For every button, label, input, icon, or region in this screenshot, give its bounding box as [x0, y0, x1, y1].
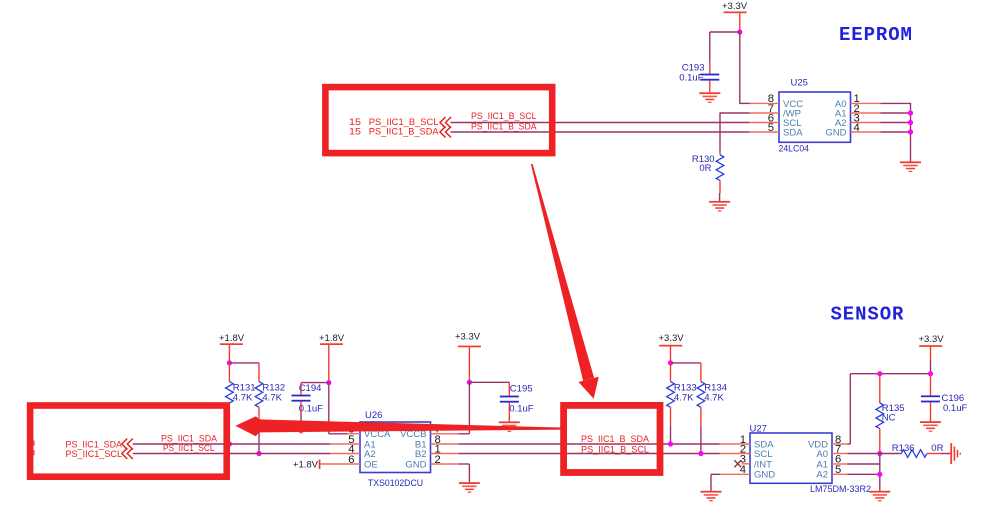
svg-text:15: 15	[349, 127, 361, 137]
wire: U27 VDD up to +3.3V rail	[848, 374, 931, 444]
svg-text:A0: A0	[816, 449, 828, 460]
node: R131 to SDA wire	[227, 441, 232, 446]
annotation box (top, PS_IIC1_B nets)	[325, 87, 552, 153]
svg-text:EEPROM: EEPROM	[839, 24, 913, 46]
svg-text:PS_IIC1_SCL: PS_IIC1_SCL	[66, 449, 123, 459]
U27 pin labels right	[808, 439, 828, 480]
resistor R134 4.7K	[697, 363, 727, 454]
svg-text:+1.8V: +1.8V	[219, 333, 245, 344]
op U27 LM75DM-33R2 chip body	[750, 423, 872, 495]
ground (C193)	[699, 92, 720, 103]
svg-text:+1.8V: +1.8V	[319, 333, 345, 344]
U25 pin numbers right	[854, 93, 860, 134]
wire: junction to R134	[671, 362, 701, 364]
U25 right pin stubs 1,2,3,4	[851, 103, 881, 132]
connector page-number marks (behind red box edge)	[32, 441, 34, 456]
wire: junction to C194	[301, 382, 329, 384]
U27 pin labels left	[754, 439, 775, 480]
wire: PS_IIC1_B_SCL net (to U25 SCL)	[451, 122, 750, 124]
svg-text:PS_IIC1_B_SCL: PS_IIC1_B_SCL	[581, 444, 649, 454]
power +3.3V (U26 VCCB / C195)	[455, 331, 481, 382]
svg-text:+3.3V: +3.3V	[722, 1, 748, 12]
U26 pin numbers right	[435, 424, 441, 466]
svg-text:0.1uF: 0.1uF	[509, 404, 533, 415]
no-connect X on U27 /INT	[734, 460, 741, 467]
ground (U27 GND)	[701, 491, 722, 502]
title SENSOR	[831, 304, 905, 326]
wire: U26 GND to ground	[459, 464, 470, 482]
U25 pin numbers left	[768, 93, 774, 134]
svg-text:R136: R136	[892, 443, 915, 454]
U27 pin numbers right	[835, 434, 841, 476]
resistor R136 0R (horizontal)	[892, 443, 951, 457]
U26 pin numbers left	[348, 424, 354, 466]
svg-text:0.1uF: 0.1uF	[299, 404, 323, 415]
annotation arrow (top box to middle box)	[531, 164, 599, 399]
svg-text:C194: C194	[299, 383, 322, 394]
svg-text:5: 5	[768, 122, 774, 134]
ground (R130)	[709, 201, 730, 212]
svg-text:4: 4	[740, 464, 746, 476]
svg-text:+3.3V: +3.3V	[919, 334, 945, 345]
svg-text:PS_IIC1_B_SDA: PS_IIC1_B_SDA	[369, 127, 439, 137]
U26 pin labels left	[364, 429, 391, 470]
svg-text:GND: GND	[825, 127, 846, 138]
node: A2 junction	[877, 472, 882, 477]
power +1.8V (R131/R132 pullups)	[219, 333, 245, 363]
power +3.3V (U27 VDD / C196)	[919, 334, 945, 374]
svg-text:NC: NC	[882, 413, 896, 424]
svg-text:6: 6	[348, 454, 354, 466]
svg-text:SDA: SDA	[783, 127, 803, 138]
svg-text:C195: C195	[510, 383, 533, 394]
off-page connector PS_IIC1_SDA	[66, 439, 133, 450]
wire: PS_IIC1_SDA net	[133, 443, 330, 445]
wire: A0..GND to ground rail	[881, 103, 911, 162]
svg-text:GND: GND	[405, 459, 426, 470]
svg-text:PS_IIC1_B_SCL: PS_IIC1_B_SCL	[369, 117, 439, 127]
node: R135 to A0 wire	[877, 451, 882, 456]
U25 pin labels right	[825, 99, 846, 139]
svg-text:PS_IIC1_B_SDA: PS_IIC1_B_SDA	[471, 121, 537, 131]
U27 pin numbers left	[740, 434, 746, 476]
svg-text:TXS0102DCU: TXS0102DCU	[368, 478, 423, 489]
svg-text:A2: A2	[364, 449, 376, 460]
svg-text:4.7K: 4.7K	[674, 393, 694, 404]
U26 right pin stubs	[431, 434, 459, 464]
wire: PS_IIC1_SCL net	[133, 453, 330, 455]
U27 left pin stubs	[720, 444, 750, 474]
resistor R131 4.7K	[226, 363, 256, 444]
svg-text:PS_IIC1_SCL: PS_IIC1_SCL	[163, 443, 215, 453]
power +1.8V (U26 VCCA / C194)	[319, 333, 345, 382]
svg-text:4.7K: 4.7K	[262, 393, 282, 404]
svg-text:A2: A2	[816, 470, 828, 481]
annotation box (bottom middle, PS_IIC1_B nets)	[564, 405, 660, 472]
node: rail junction R135	[877, 371, 882, 376]
capacitor C195 0.1uF	[500, 382, 534, 421]
svg-text:SCL: SCL	[754, 449, 772, 460]
resistor R133 4.7K	[667, 363, 697, 444]
annotation arrow (middle box to left box)	[235, 416, 565, 436]
U26 left pin stubs	[320, 434, 360, 464]
op U26 TXS0102DCU chip body	[360, 410, 431, 489]
U25 pin labels left	[783, 99, 803, 139]
title EEPROM	[839, 24, 913, 46]
power +3.3V (top, feeds U25 VCC)	[722, 1, 748, 32]
svg-text:U25: U25	[791, 78, 808, 89]
svg-text:+3.3V: +3.3V	[659, 333, 685, 344]
off-page connector PS_IIC1_SCL	[66, 448, 133, 459]
svg-text:U27: U27	[750, 423, 767, 434]
svg-text:PS_IIC1_B_SCL: PS_IIC1_B_SCL	[471, 111, 537, 121]
U26 pin labels right	[400, 429, 427, 470]
svg-text:PS_IIC1_SDA: PS_IIC1_SDA	[161, 434, 218, 444]
capacitor C194 0.1uF	[292, 383, 324, 423]
wire: /WP net to R130	[720, 112, 750, 151]
wire: PS_IIC1_B_SDA net (to U25 SDA)	[451, 131, 750, 133]
node: +3.3V junction	[668, 360, 673, 365]
wire: junction down to U25 VCC pin	[739, 32, 749, 103]
wire: A0 net to R136	[848, 453, 902, 455]
svg-text:PS_IIC1_SDA: PS_IIC1_SDA	[66, 439, 123, 449]
svg-text:B2: B2	[415, 449, 427, 460]
ground (C195)	[499, 421, 520, 432]
svg-text:24LC04: 24LC04	[779, 143, 810, 154]
ground (C194, mostly behind arrow)	[291, 423, 312, 434]
svg-text:+1.8V: +1.8V	[293, 459, 319, 470]
op U25 24LC04 chip body	[779, 78, 851, 155]
wire: junction down to U26 VCCA	[329, 383, 347, 434]
node: +3.3V junction (C195/VCCB)	[467, 380, 472, 385]
resistor R135 NC	[876, 374, 905, 454]
wire: PS_IIC1_B_SDA net (U26 B1 to U27 SDA)	[459, 443, 720, 445]
ground (U27 A1/A2)	[869, 491, 890, 502]
node: R134 to SCL wire	[698, 451, 703, 456]
svg-text:PS_IIC1_B_SDA: PS_IIC1_B_SDA	[581, 434, 650, 444]
ground (U25 A0-GND)	[900, 161, 921, 172]
wire: PS_IIC1_B_SCL net (U26 B2 to U27 SCL)	[459, 453, 720, 455]
wire: A1 down to A2	[848, 454, 880, 491]
svg-text:15: 15	[349, 117, 361, 127]
off-page connector 15 PS_IIC1_B_SCL	[349, 117, 451, 128]
capacitor C193 0.1uF	[679, 62, 719, 93]
wire: junction to C195	[469, 381, 509, 383]
wire: U27 GND to ground	[711, 474, 720, 491]
svg-text:0.1uF: 0.1uF	[679, 73, 703, 84]
ground (C196)	[920, 421, 941, 432]
ground (U26 GND)	[459, 482, 480, 493]
U25 left pin stubs 8,7,6,5	[750, 103, 780, 132]
power +3.3V (R133/R134 pullups)	[659, 333, 685, 363]
capacitor C196 0.1uF	[921, 374, 967, 422]
svg-text:0.1uF: 0.1uF	[943, 403, 967, 414]
wire: junction to C193 branch	[710, 32, 741, 62]
annotation box (bottom left, PS_IIC1 nets)	[30, 406, 227, 477]
node: R133 to SDA wire	[668, 441, 673, 446]
svg-text:+3.3V: +3.3V	[455, 331, 481, 342]
svg-text:0R: 0R	[699, 163, 711, 174]
svg-text:4.7K: 4.7K	[704, 393, 724, 404]
power +1.8V (U26 OE, inline)	[293, 459, 320, 470]
svg-text:4.7K: 4.7K	[233, 393, 253, 404]
node: +1.8V junction	[227, 360, 232, 365]
off-page connector 15 PS_IIC1_B_SDA	[349, 127, 451, 138]
resistor R132 4.7K	[255, 363, 285, 454]
svg-text:SENSOR: SENSOR	[831, 304, 905, 326]
node: +3.3V junction	[737, 29, 742, 34]
node: rail junction C196	[928, 371, 933, 376]
U27 right pin stubs	[832, 444, 848, 474]
svg-text:U26: U26	[365, 410, 382, 421]
node: R132 to SCL wire	[256, 451, 261, 456]
node: +1.8V junction (C194/VCCA)	[326, 380, 331, 385]
svg-text:OE: OE	[364, 459, 378, 470]
ground (rotated, right of R136)	[950, 443, 961, 464]
svg-text:LM75DM-33R2: LM75DM-33R2	[810, 484, 871, 495]
resistor R130 0R	[692, 152, 724, 202]
node junctions on ground rail	[908, 110, 913, 134]
wire: junction down to U26 VCCB	[459, 382, 470, 434]
wire: junction to R132	[229, 362, 259, 364]
svg-text:0R: 0R	[931, 443, 943, 454]
svg-text:GND: GND	[754, 470, 775, 481]
